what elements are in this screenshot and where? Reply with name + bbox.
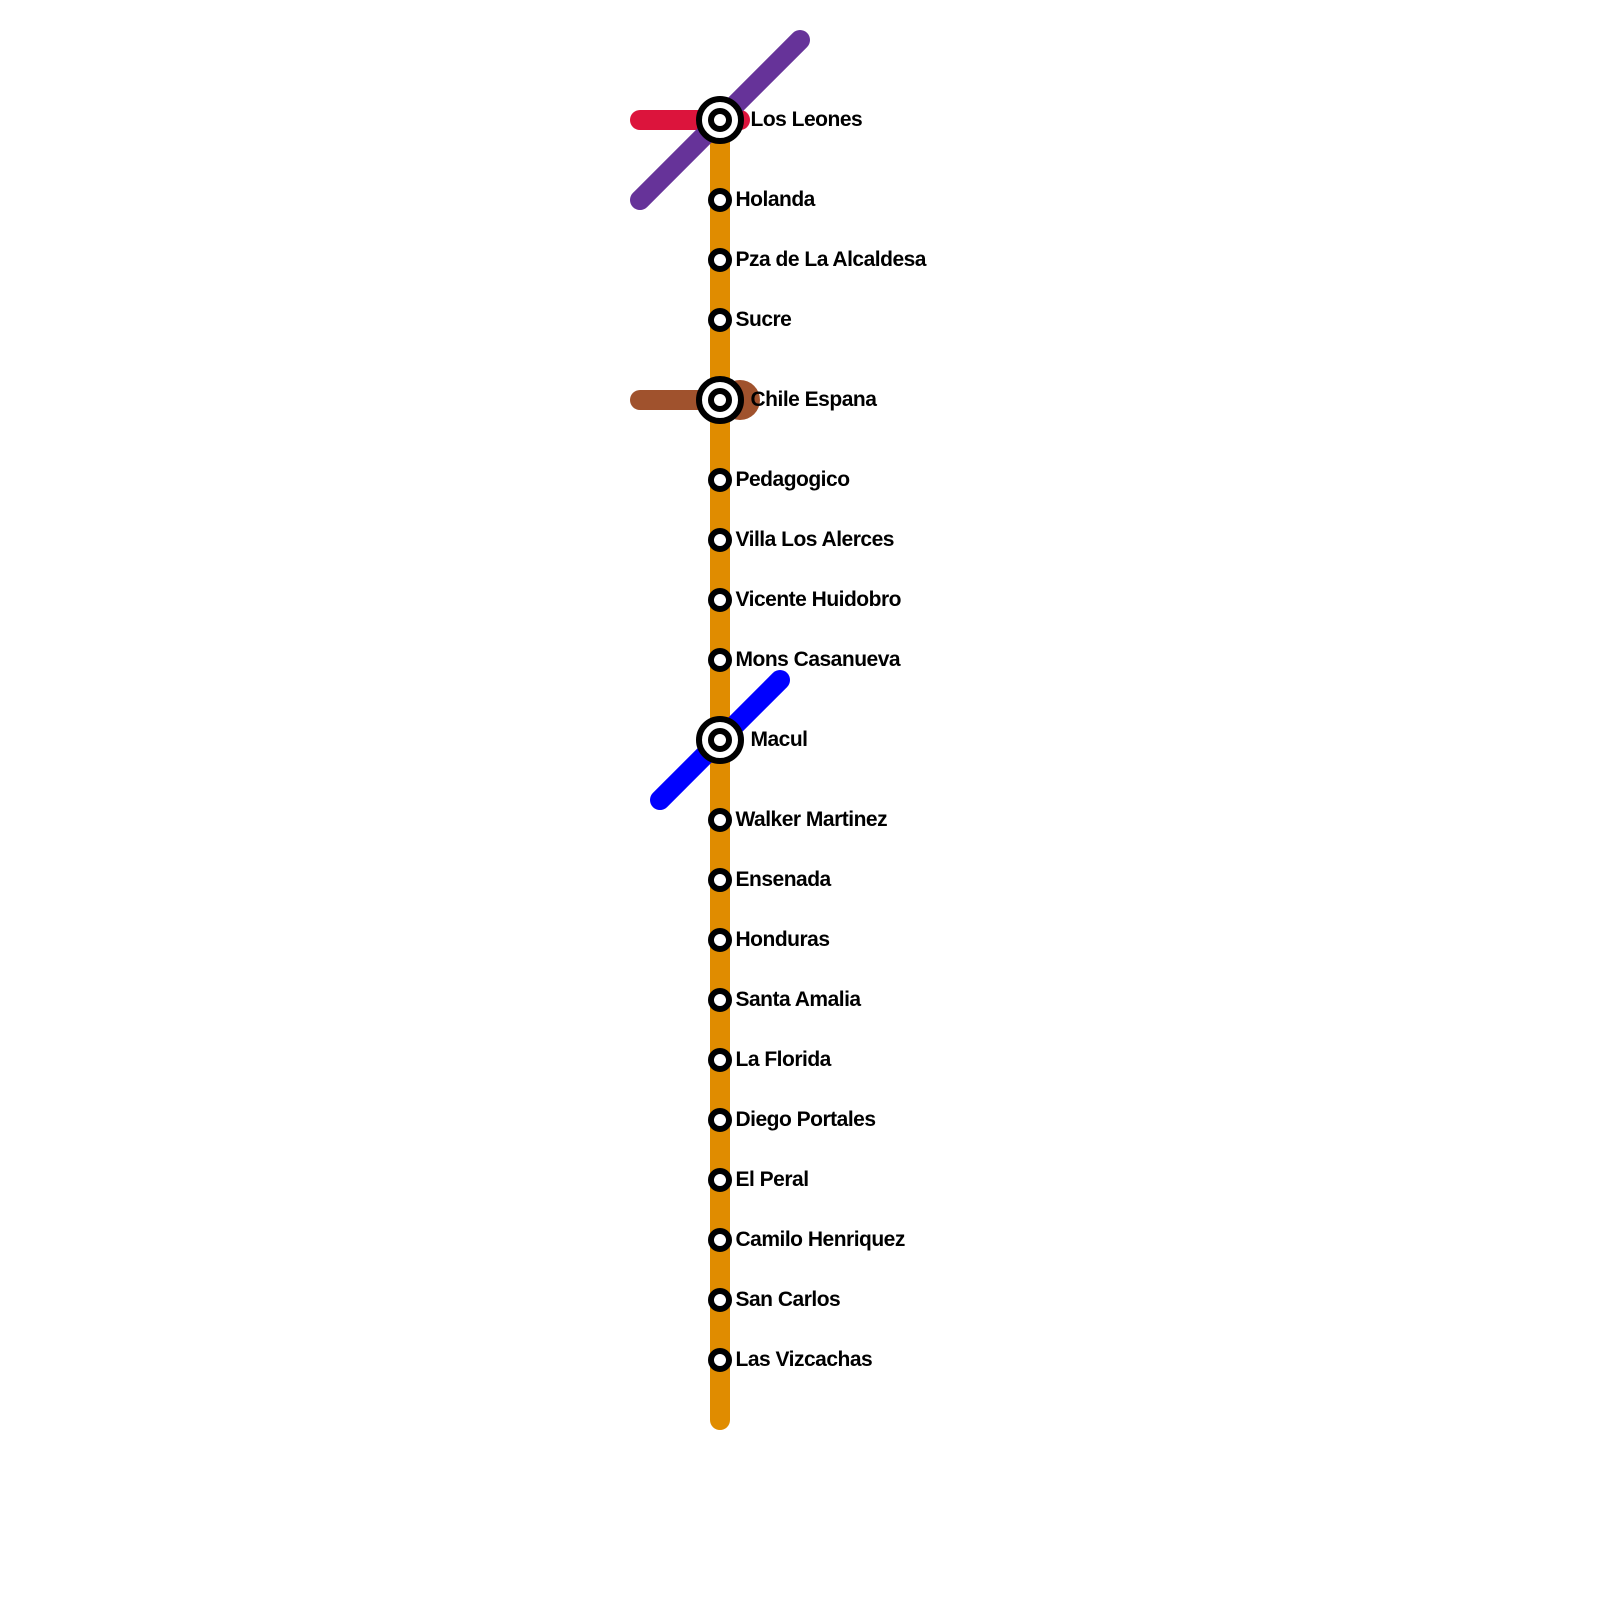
- svg-text:El Peral: El Peral: [736, 1168, 809, 1191]
- interchange station Los Leones: [699, 99, 741, 141]
- station Santa Amalia marker: [711, 991, 729, 1009]
- station La Florida marker: [711, 1051, 729, 1069]
- svg-text:Chile Espana: Chile Espana: [751, 388, 878, 411]
- svg-text:Camilo Henriquez: Camilo Henriquez: [736, 1228, 905, 1251]
- station Mons Casanueva marker: [711, 651, 729, 669]
- interchange station Chile Espana: [699, 379, 741, 421]
- station Ensenada marker: [711, 871, 729, 889]
- svg-text:Walker Martinez: Walker Martinez: [736, 808, 888, 831]
- svg-text:Pza de La Alcaldesa: Pza de La Alcaldesa: [736, 248, 927, 271]
- line L-sienna terminal disc: [720, 380, 760, 420]
- svg-text:Santa Amalia: Santa Amalia: [736, 988, 862, 1011]
- svg-text:Holanda: Holanda: [736, 188, 816, 211]
- interchange station Macul: [699, 719, 741, 761]
- station Villa Los Alerces marker: [711, 531, 729, 549]
- station Holanda marker: [711, 191, 729, 209]
- svg-text:Macul: Macul: [751, 728, 808, 751]
- svg-text:San Carlos: San Carlos: [736, 1288, 841, 1311]
- svg-text:Sucre: Sucre: [736, 308, 792, 331]
- station Diego Portales marker: [711, 1111, 729, 1129]
- svg-text:Vicente Huidobro: Vicente Huidobro: [736, 588, 901, 611]
- svg-text:Villa Los Alerces: Villa Los Alerces: [736, 528, 894, 551]
- station El Peral marker: [711, 1171, 729, 1189]
- line L-blue diagonal through Macul: [660, 680, 780, 800]
- station Sucre marker: [711, 311, 729, 329]
- svg-text:Los Leones: Los Leones: [751, 108, 863, 131]
- svg-text:Pedagogico: Pedagogico: [736, 468, 850, 491]
- station Las Vizcachas marker: [711, 1351, 729, 1369]
- line L-orange main trunk: [710, 120, 730, 1420]
- station Honduras marker: [711, 931, 729, 949]
- svg-text:Mons Casanueva: Mons Casanueva: [736, 648, 901, 671]
- line L-purple diagonal through Los Leones: [640, 40, 800, 200]
- line L-crimson stub at Los Leones: [640, 110, 740, 130]
- svg-text:Honduras: Honduras: [736, 928, 830, 951]
- svg-text:Ensenada: Ensenada: [736, 868, 832, 891]
- station Camilo Henriquez marker: [711, 1231, 729, 1249]
- station Pza de La Alcaldesa marker: [711, 251, 729, 269]
- svg-text:La Florida: La Florida: [736, 1048, 832, 1071]
- line L-sienna stub at Chile Espana: [640, 390, 740, 410]
- svg-text:Diego Portales: Diego Portales: [736, 1108, 876, 1131]
- station San Carlos marker: [711, 1291, 729, 1309]
- station Walker Martinez marker: [711, 811, 729, 829]
- svg-text:Las Vizcachas: Las Vizcachas: [736, 1348, 873, 1371]
- station Vicente Huidobro marker: [711, 591, 729, 609]
- station Pedagogico marker: [711, 471, 729, 489]
